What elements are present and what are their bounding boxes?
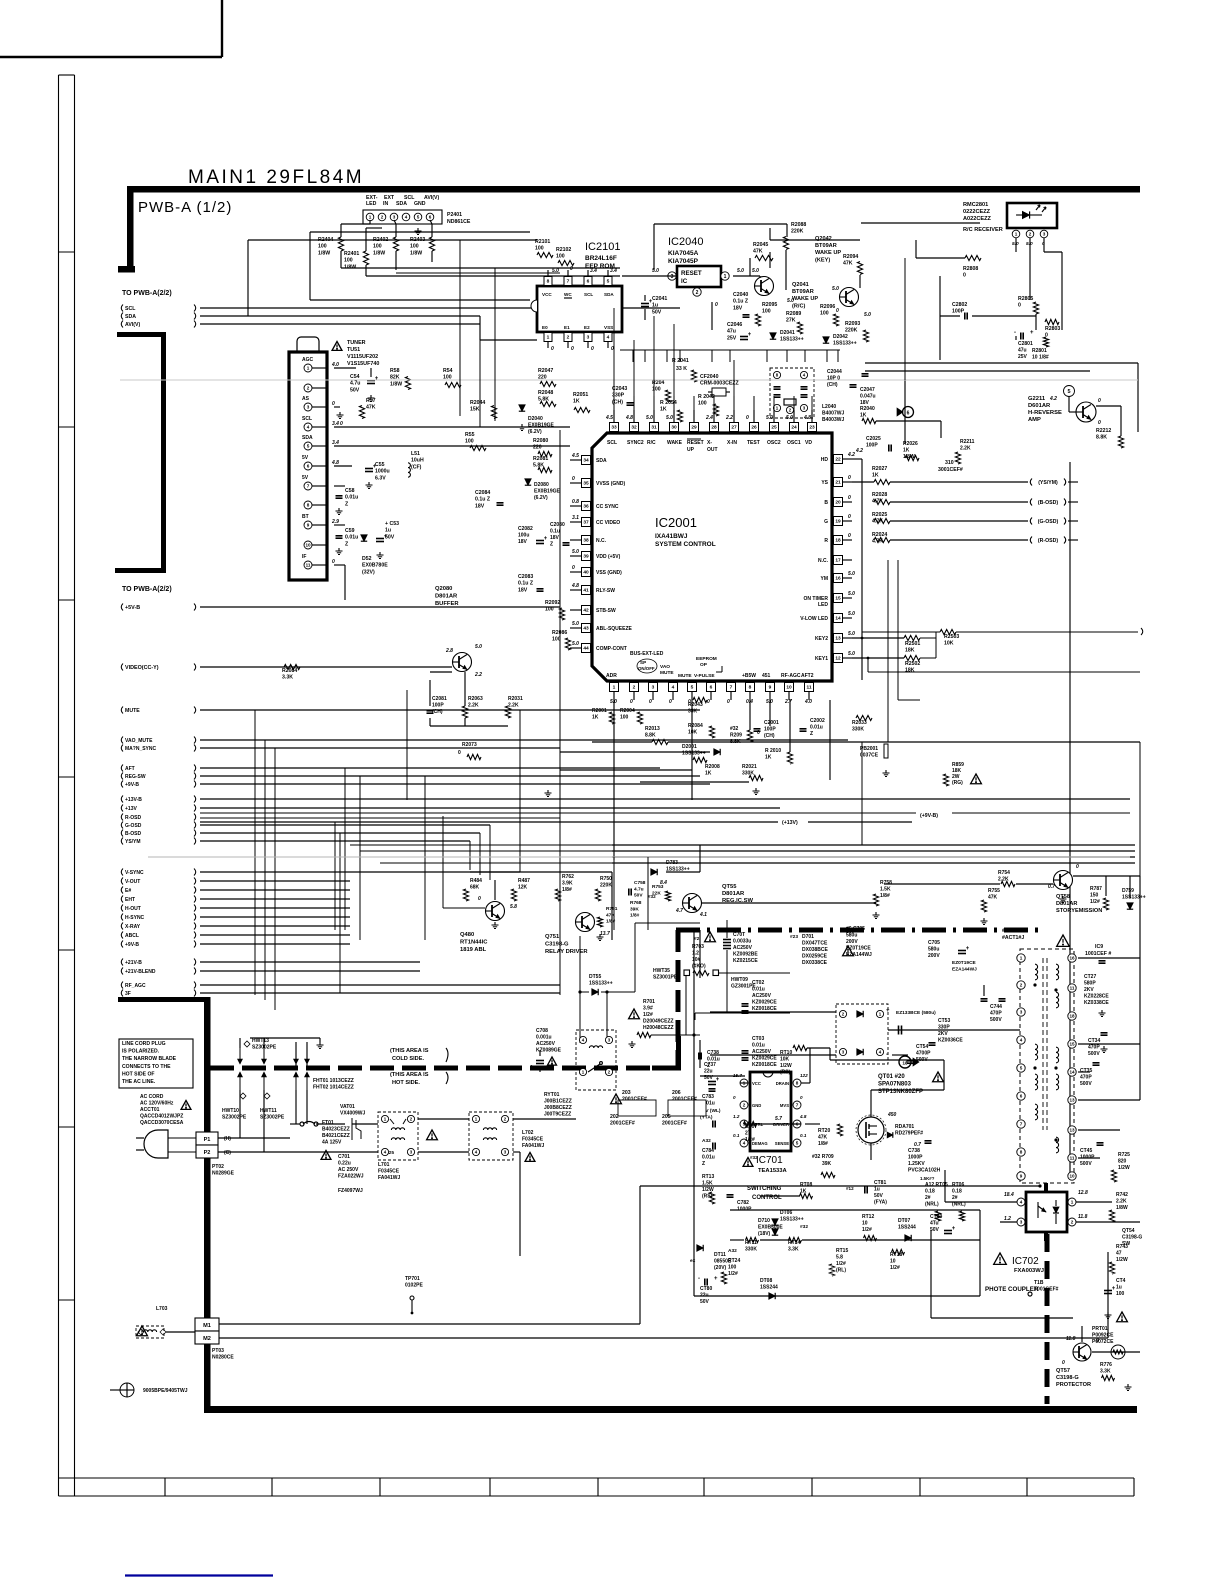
svg-text:580P: 580P (1084, 981, 1096, 987)
svg-text:100: 100 (545, 607, 554, 613)
svg-text:D52: D52 (362, 556, 372, 562)
svg-text:100: 100 (1116, 1291, 1125, 1297)
svg-text:+: + (714, 1276, 718, 1282)
svg-text:QT55: QT55 (722, 884, 737, 890)
svg-text:R2503: R2503 (944, 634, 959, 640)
svg-text:1SS244: 1SS244 (898, 1225, 916, 1231)
svg-text:R/C: R/C (647, 440, 656, 446)
svg-text:H-REVERSE: H-REVERSE (1028, 410, 1062, 416)
svg-text:+9V-B: +9V-B (125, 942, 139, 948)
svg-text:100: 100 (762, 309, 771, 315)
svg-text:+13V-B: +13V-B (125, 797, 142, 803)
svg-text:HWT11: HWT11 (260, 1108, 277, 1114)
svg-text:KZ0018CE: KZ0018CE (752, 1062, 777, 1068)
svg-text:10: 10 (1069, 1174, 1075, 1179)
svg-text:IS POLARIZED.: IS POLARIZED. (122, 1049, 160, 1055)
svg-text:2001CEF#: 2001CEF# (610, 1121, 635, 1127)
svg-text:4: 4 (672, 685, 675, 691)
svg-text:-: - (698, 1276, 700, 1282)
svg-text:5: 5 (417, 215, 420, 220)
svg-text:R2073: R2073 (462, 742, 477, 748)
svg-text:122: 122 (800, 1073, 808, 1078)
svg-text:C708: C708 (536, 1028, 548, 1034)
svg-text:F0345CE: F0345CE (378, 1169, 400, 1175)
svg-text:1/2W: 1/2W (1116, 1257, 1128, 1263)
svg-text:3: 3 (393, 215, 396, 220)
svg-text:AS: AS (302, 396, 310, 402)
svg-text:R2033: R2033 (852, 720, 867, 726)
svg-text:SCL: SCL (302, 416, 312, 422)
svg-text:0: 0 (707, 699, 710, 705)
svg-text:31: 31 (651, 425, 657, 431)
svg-text:R2045: R2045 (753, 242, 768, 248)
svg-text:10K: 10K (780, 1057, 790, 1063)
svg-text:EX0B780E: EX0B780E (362, 563, 388, 569)
svg-text:CT45: CT45 (1080, 1148, 1092, 1154)
svg-text:1/2W: 1/2W (780, 1063, 792, 1069)
svg-text:D759: D759 (1122, 888, 1134, 894)
svg-text:R2093: R2093 (845, 321, 860, 327)
svg-text:STORYEMISSION: STORYEMISSION (1056, 908, 1102, 914)
svg-text:5.0: 5.0 (848, 651, 855, 657)
svg-text:THE AC LINE.: THE AC LINE. (122, 1079, 156, 1085)
svg-text:OSC1: OSC1 (787, 440, 801, 446)
svg-text:KZ0092BE: KZ0092BE (733, 952, 758, 958)
svg-text:27: 27 (745, 1131, 751, 1137)
svg-text:SDA: SDA (125, 314, 136, 320)
svg-text:C738: C738 (908, 1148, 920, 1154)
svg-text:C2001: C2001 (764, 720, 779, 726)
svg-text:+9V-B: +9V-B (125, 782, 139, 788)
svg-text:CT40: CT40 (930, 1214, 942, 1220)
svg-text:V-SYNC: V-SYNC (125, 870, 144, 876)
svg-text:0: 0 (715, 302, 718, 308)
svg-text:RD279PEF#: RD279PEF# (895, 1131, 923, 1137)
svg-text:10uH: 10uH (411, 458, 424, 464)
svg-text:R2004: R2004 (620, 708, 635, 714)
svg-text:10: 10 (862, 1221, 868, 1227)
svg-text:8: 8 (307, 503, 310, 508)
svg-text:RT08: RT08 (800, 1182, 812, 1188)
svg-text:0.01u: 0.01u (752, 987, 765, 993)
svg-text:+13V: +13V (125, 806, 137, 812)
svg-text:(R-OSD): (R-OSD) (1038, 538, 1058, 544)
svg-text:R2021: R2021 (742, 764, 757, 770)
svg-text:0.01u: 0.01u (345, 535, 358, 541)
svg-text:0: 0 (848, 495, 851, 501)
svg-text:18V: 18V (733, 305, 743, 311)
svg-text:0.01u: 0.01u (810, 725, 823, 731)
svg-text:AC CORD: AC CORD (140, 1094, 164, 1100)
svg-text:1SS133++: 1SS133++ (1122, 895, 1146, 901)
svg-text:(THIS AREA IS: (THIS AREA IS (390, 1072, 429, 1078)
svg-text:37: 37 (583, 520, 589, 526)
svg-text:J00B1CEZZ: J00B1CEZZ (544, 1099, 572, 1105)
svg-text:21: 21 (835, 480, 841, 486)
svg-text:(+9V-B): (+9V-B) (920, 813, 938, 819)
svg-text:H20048CEZZ: H20048CEZZ (643, 1025, 674, 1031)
svg-text:B4023CEZZ: B4023CEZZ (322, 1127, 350, 1133)
svg-text:IC2040: IC2040 (668, 236, 703, 248)
svg-text:6: 6 (429, 215, 432, 220)
svg-text:0: 0 (591, 346, 594, 352)
svg-text:9: 9 (1020, 1174, 1023, 1179)
svg-text:(32V): (32V) (362, 569, 375, 575)
svg-text:TP701: TP701 (405, 1276, 420, 1282)
svg-text:2#: 2# (952, 1195, 958, 1201)
svg-text:(6.2V): (6.2V) (534, 495, 548, 501)
svg-text:33 K: 33 K (676, 366, 687, 372)
svg-text:RDA701: RDA701 (895, 1124, 914, 1130)
svg-text:2KV: 2KV (938, 1031, 948, 1037)
svg-text:(FYA): (FYA) (874, 1200, 887, 1206)
svg-text:VAO: VAO (660, 664, 670, 670)
svg-text:BUS-EXT-LED: BUS-EXT-LED (630, 651, 664, 657)
svg-text:0.22u: 0.22u (338, 1161, 351, 1167)
svg-text:WAKE UP: WAKE UP (815, 250, 841, 256)
svg-text:0.0033u: 0.0033u (733, 939, 751, 945)
svg-text:1/2W: 1/2W (702, 1187, 714, 1193)
svg-text:SENSE: SENSE (775, 1141, 789, 1146)
svg-text:5: 5 (1067, 389, 1070, 395)
svg-text:R-OSD: R-OSD (125, 815, 142, 821)
svg-text:X-: X- (707, 440, 712, 446)
svg-text:RLY-SW: RLY-SW (596, 588, 615, 594)
svg-text:25: 25 (771, 425, 777, 431)
svg-text:(RL): (RL) (836, 1268, 846, 1274)
svg-text:11: 11 (806, 685, 811, 691)
svg-text:MUTE: MUTE (660, 670, 674, 676)
svg-text:1/2#: 1/2# (643, 1012, 653, 1018)
svg-text:8.8K: 8.8K (1096, 435, 1107, 441)
svg-text:0.1u Z: 0.1u Z (475, 497, 491, 503)
svg-text:3F: 3F (125, 991, 131, 997)
svg-text:R487: R487 (518, 878, 530, 884)
svg-text:QACCD4012WJPZ: QACCD4012WJPZ (140, 1114, 183, 1120)
svg-text:VCC: VCC (542, 292, 552, 297)
svg-text:B4021CEZZ: B4021CEZZ (322, 1133, 350, 1139)
svg-text:7: 7 (307, 484, 310, 489)
svg-text:D2080: D2080 (534, 482, 549, 488)
svg-text:RELAY DRIVER: RELAY DRIVER (545, 949, 588, 955)
svg-text:18K: 18K (905, 668, 915, 674)
svg-text:2KV: 2KV (1084, 987, 1094, 993)
svg-text:C2040: C2040 (733, 292, 748, 298)
svg-text:15K: 15K (470, 407, 480, 413)
svg-text:10#: 10# (692, 957, 701, 963)
svg-text:4.7u: 4.7u (350, 381, 360, 387)
svg-text:8: 8 (1020, 1150, 1023, 1155)
svg-text:E0: E0 (542, 325, 548, 330)
svg-text:R2808: R2808 (963, 266, 978, 272)
svg-text:G2211: G2211 (1028, 396, 1046, 402)
svg-text:C2802: C2802 (952, 302, 967, 308)
svg-text:0: 0 (649, 699, 652, 705)
svg-text:5.0: 5.0 (552, 268, 559, 274)
svg-text:C2002: C2002 (810, 718, 825, 724)
svg-text:14: 14 (1069, 1070, 1075, 1075)
svg-text:RT12: RT12 (862, 1214, 874, 1220)
svg-text:(B-OSD): (B-OSD) (1038, 500, 1058, 506)
svg-text:0.1: 0.1 (800, 1133, 807, 1138)
svg-text:100: 100 (728, 1265, 737, 1271)
svg-text:(+13V): (+13V) (782, 820, 798, 826)
svg-text:0: 0 (1045, 333, 1048, 339)
svg-text:SDA: SDA (604, 292, 614, 297)
svg-text:CT02: CT02 (752, 980, 764, 986)
svg-text:(H): (H) (224, 1136, 231, 1142)
svg-text:CT53: CT53 (938, 1018, 950, 1024)
svg-text:VVSS (GND): VVSS (GND) (596, 481, 626, 487)
svg-text:Q2042: Q2042 (815, 236, 832, 242)
svg-text:20: 20 (835, 500, 841, 506)
svg-text:C54: C54 (350, 374, 360, 380)
svg-text:B: B (824, 500, 828, 506)
svg-text:13: 13 (1069, 1128, 1075, 1133)
svg-text:1K: 1K (765, 755, 772, 761)
svg-text:AC250V: AC250V (733, 945, 753, 951)
svg-text:#32: #32 (800, 1224, 808, 1230)
svg-text:R57: R57 (366, 398, 376, 404)
svg-text:3.3K: 3.3K (1100, 1369, 1111, 1375)
svg-text:42: 42 (583, 608, 589, 614)
svg-text:10K: 10K (944, 641, 954, 647)
svg-text:22: 22 (835, 457, 841, 463)
svg-text:11: 11 (1070, 986, 1075, 991)
svg-text:HWT09: HWT09 (731, 977, 748, 983)
svg-text:#32: #32 (648, 894, 656, 899)
svg-text:DX047TCE: DX047TCE (802, 941, 828, 947)
svg-text:CT54: CT54 (916, 1044, 928, 1050)
svg-text:39: 39 (583, 554, 589, 560)
svg-text:1/2#: 1/2# (836, 1261, 846, 1267)
svg-text:R55: R55 (465, 432, 475, 438)
svg-text:1: 1 (1071, 1200, 1074, 1205)
svg-text:0.01u: 0.01u (345, 495, 358, 501)
svg-text:1/2#: 1/2# (745, 1137, 755, 1143)
svg-text:1: 1 (1015, 232, 1018, 237)
svg-text:V1S15UF740: V1S15UF740 (347, 361, 379, 367)
svg-text:IF: IF (302, 554, 306, 560)
svg-text:EZ0T19CE: EZ0T19CE (952, 960, 977, 966)
svg-text:E2: E2 (584, 325, 590, 330)
svg-text:RYT01: RYT01 (544, 1092, 560, 1098)
svg-text:11: 11 (1070, 1156, 1075, 1161)
svg-text:V-PULSE: V-PULSE (694, 673, 715, 679)
svg-text:(KEY): (KEY) (815, 257, 830, 263)
svg-text:RT15: RT15 (836, 1248, 848, 1254)
svg-text:500V: 500V (1088, 1051, 1100, 1057)
svg-text:5.0: 5.0 (864, 312, 871, 318)
svg-text:0: 0 (746, 415, 749, 421)
svg-text:TO PWB-A(2/2): TO PWB-A(2/2) (122, 290, 172, 297)
svg-text:RESET: RESET (687, 440, 704, 446)
svg-text:3: 3 (587, 335, 590, 341)
svg-text:0: 0 (669, 699, 672, 705)
svg-text:R2040: R2040 (860, 406, 875, 412)
svg-text:D783: D783 (666, 860, 678, 866)
svg-text:R2211: R2211 (960, 439, 975, 445)
svg-text:100: 100 (552, 637, 561, 643)
svg-text:SPA07N803: SPA07N803 (878, 1082, 912, 1088)
svg-text:KIA7045A: KIA7045A (668, 250, 699, 257)
svg-text:0: 0 (800, 1095, 803, 1100)
svg-text:1.2: 1.2 (1004, 1216, 1011, 1222)
svg-text:+: + (544, 536, 548, 542)
svg-text:ex: ex (690, 1259, 696, 1264)
svg-text:P2: P2 (204, 1150, 211, 1156)
svg-text:L2040: L2040 (822, 404, 836, 410)
svg-text:X-IN: X-IN (727, 440, 737, 446)
svg-text:#2: #2 (694, 936, 700, 942)
svg-text:330K: 330K (742, 771, 754, 777)
svg-text:0: 0 (630, 699, 633, 705)
svg-text:A32: A32 (728, 1248, 737, 1254)
svg-text:RF-AGC: RF-AGC (781, 673, 801, 679)
svg-text:N0280CE: N0280CE (212, 1355, 234, 1361)
svg-text:4.7: 4.7 (675, 908, 683, 914)
svg-text:1K: 1K (705, 771, 712, 777)
svg-text:1/8W: 1/8W (344, 264, 356, 270)
svg-text:6: 6 (710, 685, 713, 691)
svg-text:CT27: CT27 (1084, 974, 1096, 980)
svg-text:3: 3 (1020, 1010, 1023, 1015)
svg-text:C55: C55 (375, 462, 385, 468)
svg-text:4: 4 (607, 335, 610, 341)
svg-text:47K: 47K (988, 895, 998, 901)
svg-text:0.1u Z: 0.1u Z (518, 581, 534, 587)
svg-text:470P: 470P (990, 1011, 1002, 1017)
svg-text:+: + (886, 1008, 890, 1014)
svg-text:R2084: R2084 (688, 723, 703, 729)
svg-text:R2044: R2044 (470, 400, 485, 406)
svg-text:V-LOW LED: V-LOW LED (800, 616, 828, 622)
svg-text:AC250V: AC250V (752, 993, 772, 999)
svg-text:25V: 25V (1018, 354, 1028, 360)
svg-text:M2: M2 (203, 1336, 211, 1342)
svg-text:R2803: R2803 (1045, 326, 1060, 332)
svg-text:SYNC2: SYNC2 (627, 440, 644, 446)
svg-text:R 2010: R 2010 (765, 748, 781, 754)
svg-text:KEY2: KEY2 (815, 636, 828, 642)
svg-text:RT18: RT18 (890, 1252, 902, 1258)
svg-text:1.5K#?: 1.5K#? (920, 1176, 935, 1181)
svg-text:WAKE UP: WAKE UP (792, 296, 818, 302)
svg-text:35: 35 (583, 481, 589, 487)
svg-text:C783: C783 (702, 1094, 714, 1100)
svg-text:(YS/YM): (YS/YM) (1038, 480, 1058, 486)
svg-text:100: 100 (556, 254, 565, 260)
svg-text:7: 7 (567, 279, 570, 285)
svg-text:EZ0T19CE: EZ0T19CE (846, 946, 871, 952)
svg-text:0.18: 0.18 (952, 1189, 962, 1195)
svg-text:8: 8 (547, 279, 550, 285)
svg-text:2: 2 (567, 335, 570, 341)
svg-text:BR24L16F: BR24L16F (585, 255, 617, 262)
svg-text:47u: 47u (727, 329, 736, 335)
svg-text:0.7: 0.7 (1048, 884, 1055, 890)
svg-text:40: 40 (583, 570, 589, 576)
svg-text:0: 0 (848, 475, 851, 481)
svg-text:1000u: 1000u (375, 469, 390, 475)
svg-text:MUTE: MUTE (125, 708, 140, 714)
svg-text:7: 7 (796, 1103, 799, 1108)
svg-text:18: 18 (1069, 1014, 1075, 1019)
svg-text:1: 1 (1020, 956, 1023, 961)
svg-text:ON/OFF: ON/OFF (638, 666, 655, 671)
svg-text:17: 17 (835, 558, 841, 564)
svg-text:OP: OP (700, 662, 708, 668)
svg-text:R725: R725 (1118, 1152, 1130, 1158)
svg-text:0: 0 (1098, 398, 1101, 404)
svg-text:#23: #23 (790, 934, 798, 940)
svg-text:9: 9 (307, 523, 310, 528)
svg-text:4A 125V: 4A 125V (322, 1140, 342, 1146)
svg-text:ADR: ADR (606, 673, 617, 679)
svg-text:R768: R768 (630, 900, 642, 906)
svg-text:HOT SIDE.: HOT SIDE. (392, 1080, 420, 1086)
svg-text:A022CEZZ: A022CEZZ (963, 216, 992, 222)
svg-text:1SS133++: 1SS133++ (589, 981, 613, 987)
svg-text:5.0: 5.0 (666, 415, 673, 421)
svg-text:AFT: AFT (125, 766, 135, 772)
svg-text:P2401: P2401 (447, 212, 462, 218)
svg-text:18.4: 18.4 (1004, 1192, 1014, 1198)
svg-text:G: G (824, 519, 828, 525)
svg-text:38: 38 (583, 538, 589, 544)
svg-text:4.1: 4.1 (699, 912, 707, 918)
svg-text:C2084: C2084 (475, 490, 490, 496)
svg-text:200V: 200V (846, 939, 858, 945)
svg-text:47K: 47K (753, 249, 763, 255)
svg-text:0: 0 (570, 266, 573, 272)
svg-text:0: 0 (848, 514, 851, 520)
svg-text:4.8: 4.8 (571, 583, 579, 589)
svg-text:(R/C): (R/C) (792, 303, 805, 309)
svg-text:3.4: 3.4 (332, 421, 339, 427)
svg-text:R2027: R2027 (872, 466, 887, 472)
svg-text:10K: 10K (688, 730, 698, 736)
svg-text:IC701: IC701 (756, 1155, 783, 1166)
svg-text:22u: 22u (704, 1069, 713, 1075)
svg-text:R701: R701 (643, 999, 655, 1005)
svg-text:SYSTEM CONTROL: SYSTEM CONTROL (655, 541, 716, 548)
svg-text:+B5W: +B5W (742, 673, 756, 679)
svg-text:R2101: R2101 (535, 239, 550, 245)
svg-text:D701: D701 (802, 934, 814, 940)
svg-text:0: 0 (478, 896, 481, 902)
svg-text:7: 7 (730, 685, 733, 691)
svg-text:3.1: 3.1 (572, 515, 579, 521)
svg-text:Q2041: Q2041 (792, 282, 809, 288)
svg-text:4: 4 (405, 215, 408, 220)
svg-text:C2083: C2083 (518, 574, 533, 580)
svg-text:0.18: 0.18 (925, 1189, 935, 1195)
svg-text:R2013: R2013 (645, 726, 660, 732)
svg-text:1K: 1K (903, 448, 910, 454)
svg-text:0.1u Z: 0.1u Z (733, 299, 749, 305)
svg-text:3: 3 (307, 405, 310, 410)
svg-text:1: 1 (613, 685, 616, 691)
svg-text:5.0: 5.0 (752, 268, 759, 274)
svg-text:+ C53: + C53 (385, 521, 399, 527)
svg-text:5.0: 5.0 (652, 268, 659, 274)
svg-text:10 1/8#: 10 1/8# (1032, 355, 1049, 361)
svg-text:1: 1 (547, 335, 550, 341)
svg-text:EZ133BCE (580u): EZ133BCE (580u) (896, 1010, 936, 1016)
svg-text:1/8W: 1/8W (318, 250, 330, 256)
svg-text:P1: P1 (204, 1137, 211, 1143)
